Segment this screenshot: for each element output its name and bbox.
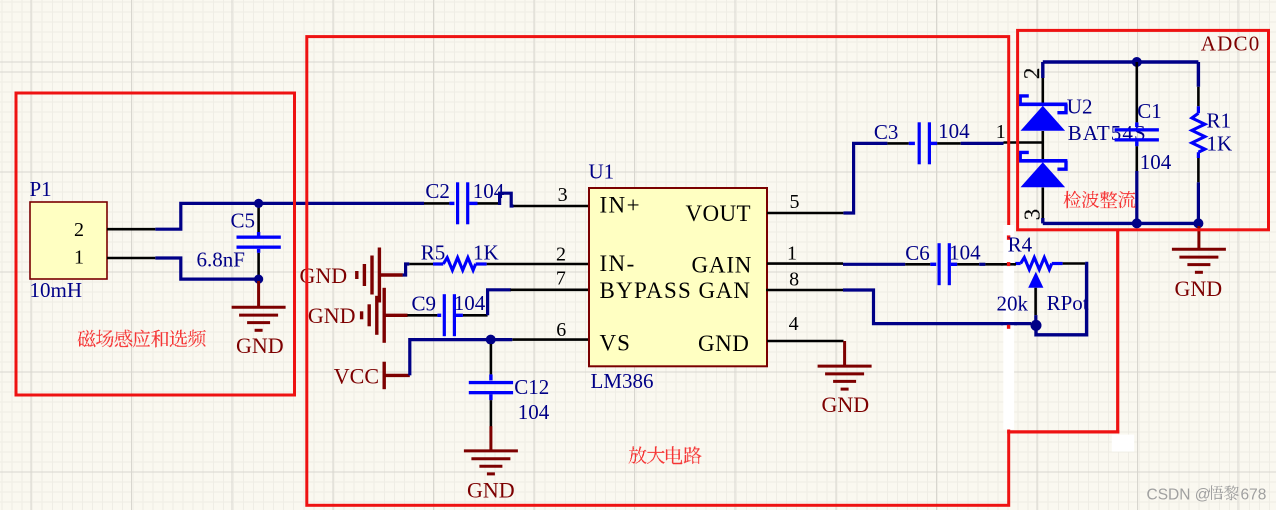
svg-text:4: 4 xyxy=(789,313,799,335)
svg-text:1K: 1K xyxy=(473,241,499,265)
svg-text:2: 2 xyxy=(556,244,566,266)
capacitor C5 xyxy=(257,203,260,232)
svg-text:6.8nF: 6.8nF xyxy=(197,248,245,272)
svg-text:1K: 1K xyxy=(1207,132,1233,156)
svg-text:VS: VS xyxy=(600,331,631,356)
rectifier top rail xyxy=(1043,60,1199,63)
capacitor C9 xyxy=(407,314,437,317)
ground GND below ADC0 box xyxy=(1197,226,1200,248)
pin U1.5 xyxy=(767,212,843,215)
white eraser patch over amplifier frame right edge xyxy=(1003,225,1014,430)
svg-text:1: 1 xyxy=(74,247,84,269)
svg-text:1: 1 xyxy=(996,121,1006,143)
red frame 放大电路 block xyxy=(307,37,1009,506)
capacitor C12 xyxy=(490,344,493,374)
wire C3 to U2 pin1 xyxy=(961,142,1004,145)
svg-text:C12: C12 xyxy=(514,375,549,399)
junction node VS / C12 xyxy=(486,335,496,345)
svg-text:GND: GND xyxy=(236,333,284,358)
svg-text:R5: R5 xyxy=(421,241,446,265)
pin U1.8 xyxy=(766,289,843,292)
svg-text:2: 2 xyxy=(74,219,84,241)
pin P1.1 xyxy=(107,257,155,260)
trimmer R4 20k RPot zigzag xyxy=(1015,262,1020,265)
svg-text:GAIN: GAIN xyxy=(692,253,753,278)
pin number U2.3 rotated xyxy=(1025,210,1040,220)
svg-text:GND: GND xyxy=(822,392,870,417)
svg-text:678: 678 xyxy=(1241,486,1267,503)
pin number U2.2 rotated xyxy=(1024,69,1039,79)
ground GND at U1 pin4 xyxy=(843,341,846,365)
svg-text:3: 3 xyxy=(558,184,568,206)
svg-text:10mH: 10mH xyxy=(30,278,83,302)
capacitor C3 xyxy=(887,142,908,145)
label 磁场感应和选频 xyxy=(78,330,96,348)
wire VOUT to C3 xyxy=(843,143,887,213)
svg-text:LM386: LM386 xyxy=(591,369,654,393)
red dashes remnants on eraser patch xyxy=(1007,235,1010,239)
wire net1 P1.2 to C2 top rail xyxy=(155,203,424,229)
pin U1.4 xyxy=(767,340,844,343)
svg-text:C3: C3 xyxy=(874,120,899,144)
svg-text:U2: U2 xyxy=(1067,95,1093,119)
wire VCC to VS rail xyxy=(410,340,488,376)
svg-text:GND: GND xyxy=(467,478,515,503)
wire R4 right to wiper junction xyxy=(1036,264,1087,335)
svg-text:BYPASS: BYPASS xyxy=(600,278,693,303)
ground GND left lower (at C9) xyxy=(360,311,363,319)
red frame 磁场感应和选频 block xyxy=(16,93,295,395)
svg-text:GND: GND xyxy=(698,331,749,356)
svg-text:VCC: VCC xyxy=(334,363,379,388)
svg-text:20k: 20k xyxy=(997,291,1029,315)
svg-text:104: 104 xyxy=(949,240,981,264)
svg-text:ADC0: ADC0 xyxy=(1201,32,1261,56)
svg-text:104: 104 xyxy=(938,119,970,143)
svg-text:104: 104 xyxy=(518,400,550,424)
svg-text:R1: R1 xyxy=(1207,109,1232,133)
part U1 LM386 xyxy=(589,188,767,366)
pin U2.1 xyxy=(1004,141,1043,144)
svg-text:GAN: GAN xyxy=(699,278,751,303)
ground GND left upper (at R5) xyxy=(355,271,358,279)
wire GAIN to C6 xyxy=(843,263,905,266)
resistor R1 1K xyxy=(1197,62,1200,87)
wire jog C2 to U1 pin3 xyxy=(498,193,514,206)
capacitor C2 xyxy=(424,202,449,205)
svg-text:GND: GND xyxy=(308,303,356,328)
wire segment re-drawn over eraser C6-R4 xyxy=(1001,263,1016,266)
svg-text:C5: C5 xyxy=(231,209,256,233)
junction node R4 wiper xyxy=(1031,320,1042,331)
ground GND below C5 xyxy=(257,281,260,307)
svg-text:104: 104 xyxy=(1140,150,1172,174)
resistor R5 1K xyxy=(409,263,433,266)
label 放大电路 xyxy=(629,446,647,464)
svg-text:7: 7 xyxy=(556,267,566,289)
wire net1 P1.1 to C5 bottom xyxy=(155,258,256,279)
pin P1.2 xyxy=(107,228,155,231)
svg-text:C1: C1 xyxy=(1137,99,1162,123)
junction node C5 bottom xyxy=(254,275,263,284)
svg-text:104: 104 xyxy=(454,291,486,315)
svg-text:VOUT: VOUT xyxy=(686,201,751,226)
capacitor C6 xyxy=(905,263,930,266)
svg-text:C2: C2 xyxy=(425,179,450,203)
wire GND to R5 xyxy=(403,264,410,275)
svg-text:IN-: IN- xyxy=(600,251,636,276)
connector P1 xyxy=(30,202,107,279)
svg-text:C6: C6 xyxy=(905,241,930,265)
svg-text:C9: C9 xyxy=(412,292,437,316)
svg-text:P1: P1 xyxy=(30,177,52,201)
svg-text:U1: U1 xyxy=(589,160,615,184)
svg-text:GND: GND xyxy=(1175,276,1223,301)
svg-text:8: 8 xyxy=(789,268,799,290)
wire GAN to R4 wiper xyxy=(843,290,1031,324)
R4 wiper arrow xyxy=(1028,272,1043,288)
svg-text:R4: R4 xyxy=(1008,232,1033,256)
red frame 检波整流 ADC0 block xyxy=(1018,30,1269,229)
svg-text:IN+: IN+ xyxy=(600,193,641,218)
svg-text:CSDN @: CSDN @ xyxy=(1147,486,1211,503)
pin U1.3 xyxy=(514,205,590,208)
wire C6 to R4 xyxy=(979,263,985,266)
ground GND below C12 xyxy=(489,426,492,450)
pin U1.1 xyxy=(767,262,843,265)
svg-text:6: 6 xyxy=(556,319,566,341)
svg-text:1: 1 xyxy=(787,242,797,264)
svg-text:5: 5 xyxy=(790,191,800,213)
pin U1.7 xyxy=(510,288,589,291)
pin U1.6 xyxy=(512,338,589,341)
wire C9 up to U1 pin7 xyxy=(488,290,511,316)
pin U1.2 xyxy=(487,263,589,266)
label 检波整流 xyxy=(1064,191,1082,209)
rectifier bottom rail xyxy=(1043,222,1199,225)
diode U2 BAT54S xyxy=(1041,62,1044,78)
wire segment re-drawn over eraser GAN net xyxy=(1001,322,1017,325)
svg-text:RPot: RPot xyxy=(1047,291,1089,315)
capacitor C1 xyxy=(1132,57,1142,67)
red connector line ADC0 to amplifier frame xyxy=(1116,230,1119,434)
junction node net1/C5 top xyxy=(254,199,263,208)
